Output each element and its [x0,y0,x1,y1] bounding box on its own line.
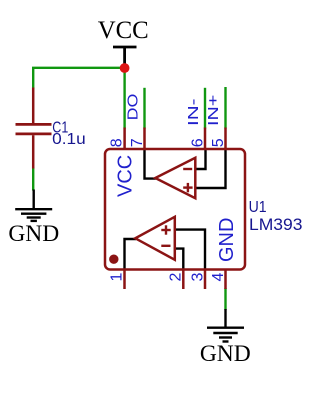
svg-text:VCC: VCC [98,17,149,44]
svg-text:6: 6 [190,138,207,147]
svg-text:U1: U1 [249,199,267,216]
svg-text:VCC: VCC [114,155,136,197]
svg-text:4: 4 [210,273,227,282]
svg-text:8: 8 [109,138,126,147]
svg-text:GND: GND [200,341,251,367]
svg-text:3: 3 [189,273,206,282]
svg-text:IN-: IN- [185,99,202,127]
svg-text:1: 1 [109,273,126,282]
svg-text:LM393: LM393 [249,215,303,234]
svg-text:IN+: IN+ [205,94,222,126]
svg-text:7: 7 [129,138,146,147]
svg-text:GND: GND [216,218,238,262]
svg-text:0.1u: 0.1u [52,131,85,148]
svg-text:5: 5 [210,138,227,147]
svg-text:DO: DO [125,94,142,121]
svg-text:GND: GND [8,221,59,247]
svg-text:2: 2 [168,273,185,282]
